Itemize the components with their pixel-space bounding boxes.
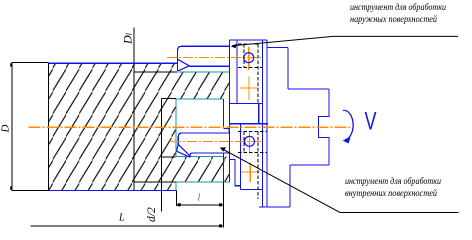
lower tool axis — [171, 140, 263, 142]
bore right edge upper — [222, 99, 224, 128]
part bottom surface — [49, 189, 176, 191]
block connector vertical — [258, 104, 260, 124]
face plate left edge — [262, 40, 264, 207]
bottom step face — [175, 182, 177, 190]
hatch region lower band — [176, 157, 229, 182]
hatch region main flange — [49, 63, 176, 190]
bore step horizontal — [223, 128, 228, 130]
faced left end of part — [48, 63, 50, 191]
upper hidden top — [238, 43, 258, 45]
l dimension line — [176, 204, 223, 206]
lower holder right edge — [262, 124, 264, 190]
chuck right edge lower — [289, 165, 291, 207]
lower screw centerline vertical — [249, 131, 251, 152]
part top surface — [49, 62, 177, 64]
right extension line — [223, 183, 225, 228]
final outer contour bottom — [134, 181, 176, 183]
machined outer surface top — [179, 71, 230, 73]
upper clamp strip left — [228, 40, 230, 72]
L dimension line — [31, 225, 224, 227]
upper hidden bottom — [238, 67, 263, 69]
svg-text:D: D — [0, 125, 12, 134]
lower tool insert — [177, 144, 191, 157]
bore top surface — [176, 98, 223, 100]
upper hidden left — [243, 44, 245, 68]
centerlines (orange) — [29, 47, 350, 182]
machined surfaces (teal) — [176, 72, 229, 190]
lower cross horizontal — [241, 171, 260, 173]
spindle top edge — [288, 88, 329, 90]
upper holder top edge — [229, 39, 266, 41]
upper holder bottom edge — [229, 103, 262, 105]
upper cross horizontal — [240, 87, 259, 89]
lower leader arrowhead — [220, 147, 226, 151]
upper clamp strip right — [236, 40, 238, 104]
final outer contour top — [134, 71, 178, 73]
D dimension arrow bottom — [10, 186, 12, 189]
svg-text:инструмент для обработки: инструмент для обработки — [350, 2, 446, 12]
main axis — [29, 126, 350, 128]
part right face — [228, 72, 230, 182]
svg-text:L: L — [118, 213, 125, 224]
d/2 extension line — [161, 157, 163, 212]
chuck right edge upper — [287, 48, 289, 89]
lower holder bottom edge — [240, 188, 262, 190]
L dimension dot right — [219, 224, 222, 227]
lower hidden top — [238, 131, 267, 133]
upper cross vertical — [248, 77, 250, 101]
upper tool body — [178, 46, 230, 71]
upper hidden right — [257, 44, 259, 104]
bore step vertical — [228, 129, 230, 133]
svg-text:внутренних поверхностей: внутренних поверхностей — [345, 188, 437, 198]
lower leader line — [222, 149, 459, 213]
svg-text:наружных поверхностей: наружных поверхностей — [350, 14, 437, 24]
lower hidden right — [257, 132, 259, 200]
blank outline left — [12, 28, 224, 228]
upper tool U1 — [178, 46, 230, 71]
upper tool insert — [178, 59, 190, 71]
lower hidden bottom — [238, 152, 267, 154]
part machined contour (blue) — [49, 63, 230, 190]
l left extension — [175, 191, 177, 207]
upper leader arrowhead — [231, 44, 237, 49]
rotation arrow — [343, 110, 353, 139]
svg-text:V: V — [365, 107, 377, 136]
spindle right face with notch — [318, 89, 329, 165]
final bore bottom — [162, 156, 176, 158]
machined outer surface bottom — [176, 181, 229, 183]
lower tool body — [178, 133, 229, 153]
svg-text:инструмент для обработки: инструмент для обработки — [345, 176, 441, 186]
tool post and chuck (blue) — [229, 40, 328, 207]
chuck top edge — [267, 47, 288, 49]
lower holder left edge — [239, 124, 241, 190]
rotation arrowhead — [343, 138, 351, 144]
svg-text:Dl: Dl — [121, 32, 135, 45]
hatch region upper band — [176, 72, 229, 99]
hidden lines (dashed black) — [238, 44, 267, 199]
face plate right edge — [266, 40, 268, 207]
lower cross vertical — [249, 163, 251, 182]
blank top edge — [12, 62, 49, 64]
lower holder top edge — [229, 123, 267, 125]
final bore floor — [161, 98, 163, 157]
upper leader line — [232, 36, 458, 45]
upper screw centerline vertical — [248, 47, 250, 70]
l dimension dot left — [178, 203, 181, 206]
upper screw circle — [244, 53, 254, 63]
upper tool axis — [167, 57, 263, 59]
lower tool U2 — [177, 133, 230, 157]
bore floor face — [175, 99, 177, 157]
lower screw circle — [245, 136, 255, 146]
D dimension arrow top — [10, 63, 12, 66]
l dimension dot right — [219, 203, 222, 206]
D1 extension line — [133, 28, 135, 191]
upper holder right edge — [262, 40, 264, 104]
blank bottom edge — [12, 189, 49, 191]
spindle bottom edge — [290, 164, 329, 166]
svg-text:d/2: d/2 — [146, 207, 158, 222]
lower clamp step — [230, 153, 241, 186]
lower hidden left — [243, 132, 245, 153]
chuck bottom edge — [259, 206, 290, 208]
bore right edge lower — [222, 153, 224, 183]
svg-text:l: l — [198, 193, 201, 204]
final bore top — [162, 97, 177, 99]
bore bottom surface — [176, 156, 223, 158]
blank left face / D dimension line — [11, 62, 13, 191]
